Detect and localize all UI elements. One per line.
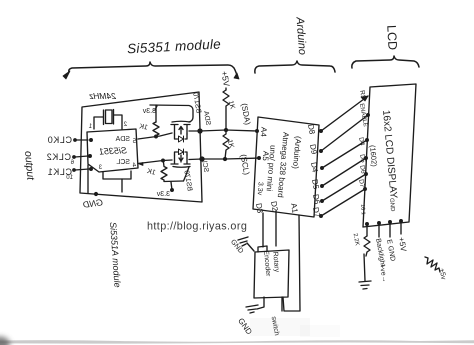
label (SDA) <box>239 103 252 126</box>
label 24MHz <box>88 91 117 101</box>
label E GND <box>385 239 396 262</box>
label Rotary Encoder <box>262 249 280 277</box>
label Si5351 <box>99 145 128 156</box>
label GND encoder left <box>229 239 244 255</box>
label Backlight <box>374 238 386 267</box>
svg-text:D4: D4 <box>357 137 365 147</box>
svg-text:SDA: SDA <box>115 136 130 143</box>
pin V0 wire <box>366 224 368 236</box>
pin E GND wire <box>389 222 391 237</box>
svg-text:http://blog.riyas.org: http://blog.riyas.org <box>147 221 247 233</box>
svg-text:16 1: 16 1 <box>359 204 366 215</box>
arrowhead at IC side of SCL <box>138 163 143 166</box>
svg-text:(1602): (1602) <box>368 145 379 168</box>
pin 1 <box>88 124 92 130</box>
wire encoder switch pin <box>281 297 283 311</box>
label +ve arrow <box>378 264 388 283</box>
label LCD <box>384 25 399 51</box>
wire lower shifter bottom rail <box>164 180 183 183</box>
brace Arduino <box>255 61 335 73</box>
crystal X1 24MHz <box>94 110 122 130</box>
wire SCL 3.3 segment to FET <box>163 159 172 162</box>
label +5v bottom right <box>438 268 447 281</box>
label ENABLE <box>358 103 368 127</box>
transistor Q1 BS170 <box>171 121 190 142</box>
label Si5351A module vertical <box>108 222 123 288</box>
label GND lcd <box>388 198 395 212</box>
svg-text:A4: A4 <box>259 127 269 138</box>
label output <box>22 150 37 181</box>
Si5351 module outer box <box>80 92 202 202</box>
wire SCL 5V side <box>189 158 260 160</box>
label 16x2 LCD DISPLAY <box>380 110 399 200</box>
pin SCL 4 of U1 <box>116 159 136 169</box>
wire D2 to encoder <box>275 211 277 246</box>
pin 2 <box>123 122 127 128</box>
label GND encoder bottom <box>236 317 254 337</box>
svg-text:3.3v: 3.3v <box>142 108 156 115</box>
pin number 10 <box>66 175 73 181</box>
label (1602) <box>368 145 379 168</box>
wire resistor to SDA line <box>155 136 157 138</box>
wire gate feed Q1 <box>150 105 193 122</box>
Arduino U2 box <box>253 117 319 217</box>
resistor R 1K lower-left <box>161 163 167 182</box>
label Atmega 328 board <box>276 132 291 198</box>
wire U1 bottom loop <box>103 171 131 179</box>
svg-text:D5: D5 <box>358 154 366 164</box>
label switch <box>270 316 280 336</box>
wire D7 <box>321 189 365 216</box>
wire SDA 3.3V side <box>138 133 172 139</box>
wire gate feed Q2 <box>184 167 190 181</box>
pin CLK1 wire <box>75 169 89 170</box>
pin label A4 <box>259 127 269 138</box>
resistor contrast <box>364 236 370 256</box>
pin label D8 <box>306 123 317 135</box>
label BS170 lower <box>182 170 193 192</box>
label +5V lcd <box>397 236 408 252</box>
resistor R pullup 1K lower <box>223 130 229 159</box>
junction R2 to SCL line <box>162 159 165 162</box>
wire D5 <box>322 158 366 186</box>
label Arduino <box>293 16 308 56</box>
pin +5V wire <box>400 221 402 234</box>
label +5V pullup rail <box>219 70 232 87</box>
svg-text:A5: A5 <box>261 151 271 162</box>
wire D9 to EN <box>321 115 368 151</box>
label 2.2K <box>352 233 360 246</box>
scan artifact bottom band <box>0 340 474 344</box>
pin label D9 <box>308 143 319 155</box>
wire encoder bottom left to ground <box>257 297 264 309</box>
pin label D5 <box>310 178 321 190</box>
wire SCL 3.3V side <box>138 161 163 164</box>
brace Si5351 module <box>63 62 239 79</box>
encoder tab <box>258 246 267 252</box>
svg-text:Si5351: Si5351 <box>99 145 128 156</box>
label 1K lower-left <box>146 168 156 177</box>
wire +5V rail <box>225 88 227 90</box>
junction R1 to SDA line <box>155 135 158 138</box>
label 1K pullup upper <box>227 100 236 110</box>
pin label D4 <box>309 161 320 173</box>
label (SCL) <box>239 154 252 176</box>
label 1K upper-left <box>138 123 148 131</box>
label CLK2 <box>46 152 71 162</box>
label Si5351 module <box>127 36 222 56</box>
label CLK0 <box>47 135 72 145</box>
pin label D3 <box>254 202 265 214</box>
label 1K pullup lower <box>226 139 235 149</box>
svg-text:SCL: SCL <box>116 159 130 166</box>
resistor backlight to 5V <box>425 257 440 272</box>
pin 3 of U1 <box>98 165 102 171</box>
label D6 lcd <box>358 165 366 175</box>
label 16 1 <box>359 204 366 215</box>
resistor R 1K upper-left <box>153 122 159 136</box>
label D4 lcd <box>357 137 365 147</box>
pin label A1 <box>289 202 300 214</box>
svg-text:D6: D6 <box>358 165 366 175</box>
junction 3.3V lower dot <box>171 189 174 192</box>
brace LCD <box>352 56 419 68</box>
label BS170 upper <box>191 92 202 114</box>
svg-text:10: 10 <box>66 175 73 181</box>
junction SDA at pullup <box>225 129 228 132</box>
label D7 lcd <box>357 179 365 189</box>
junction SCL at pullup <box>224 158 227 161</box>
svg-text:LCD: LCD <box>384 25 399 51</box>
pin label D6 <box>311 193 322 205</box>
label (Arduino) <box>291 136 303 170</box>
wire D3 to encoder <box>262 213 264 247</box>
pin CLK0 wire <box>76 139 88 141</box>
junction SCL at module edge <box>200 157 204 161</box>
wire A1 to encoder switch <box>283 215 300 311</box>
ground encoder left <box>247 243 254 251</box>
wire 3.3V lower riser <box>171 182 172 190</box>
svg-text:CLK0: CLK0 <box>47 135 72 145</box>
pin number 6 <box>70 160 74 166</box>
wire 3.3V tick upper <box>155 106 157 110</box>
wire 3.3V drop to resistor <box>155 105 157 122</box>
pin label D7 <box>311 206 322 218</box>
label GND module <box>82 197 104 210</box>
label RS <box>358 90 367 101</box>
ground encoder bottom <box>246 305 258 313</box>
label CLK1 <box>47 167 72 177</box>
pin label 3.3V arduino <box>256 182 264 196</box>
svg-text:GND: GND <box>388 198 395 212</box>
svg-text:CLK2: CLK2 <box>46 152 71 162</box>
svg-text:D7: D7 <box>357 179 365 189</box>
pin SDA 5 of U1 <box>115 136 136 145</box>
pin backlight wire <box>378 223 380 237</box>
wire U1 to module ground <box>87 165 89 193</box>
IC U1 Si5351 box <box>87 129 138 172</box>
junction SDA at module edge <box>198 129 202 133</box>
wire D6 <box>322 174 366 201</box>
ground contrast <box>359 281 371 289</box>
svg-text:3.3v: 3.3v <box>156 191 170 198</box>
pin label D2 <box>269 200 280 212</box>
pin CLK2 wire <box>75 156 88 157</box>
label uno pro mini <box>265 145 278 192</box>
svg-text:24MHz: 24MHz <box>88 91 117 101</box>
label SCL module edge <box>200 158 209 173</box>
wire D4 <box>322 140 367 168</box>
resistor R pullup 1K upper <box>223 90 229 128</box>
LCD DS1 box <box>363 84 416 227</box>
rotary encoder box <box>254 250 289 298</box>
label 3.3V upper <box>142 108 156 115</box>
transistor Q2 BS170 <box>171 149 190 167</box>
wire SDA 5V side <box>189 130 258 131</box>
label 3.3V lower <box>156 191 170 198</box>
wire contrast resistor to ground <box>364 254 365 281</box>
label D5 lcd <box>358 154 366 164</box>
label SDA module edge <box>202 110 211 126</box>
svg-text:3.3v: 3.3v <box>256 182 264 196</box>
wire pin3 to ground rail <box>121 179 123 192</box>
wire D8 to RS <box>321 96 368 131</box>
pin label A5 <box>261 151 271 162</box>
